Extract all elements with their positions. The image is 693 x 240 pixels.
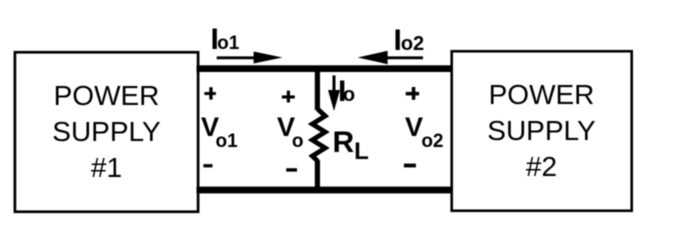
svg-text:RL: RL — [333, 126, 369, 165]
svg-text:Io1: Io1 — [211, 23, 240, 56]
current arrow Io1 — [217, 52, 283, 64]
svg-text:SUPPLY: SUPPLY — [487, 115, 596, 146]
wire resistor top lead — [315, 67, 320, 110]
label Io — [338, 75, 355, 108]
current arrow Io2 — [358, 51, 423, 64]
label Vo1 — [201, 112, 238, 152]
polarity plus node V2 — [406, 87, 419, 100]
wire bottom bus — [197, 187, 451, 194]
power supply PS2 box — [452, 51, 632, 211]
svg-text:POWER: POWER — [489, 79, 595, 110]
svg-text:Io: Io — [338, 75, 355, 108]
power supply PS1 box — [15, 52, 198, 212]
svg-text:#1: #1 — [91, 152, 122, 183]
polarity minus node V2 — [404, 164, 416, 168]
svg-text:Vo2: Vo2 — [405, 112, 444, 152]
label Vo2 — [405, 112, 444, 152]
svg-text:SUPPLY: SUPPLY — [52, 116, 161, 147]
svg-text:Vo1: Vo1 — [201, 112, 238, 152]
resistor RL — [312, 109, 325, 161]
polarity plus node Vo — [282, 91, 295, 103]
svg-text:#2: #2 — [526, 151, 557, 182]
polarity plus node V1 — [204, 87, 215, 99]
svg-text:Io2: Io2 — [394, 24, 425, 57]
wire resistor bottom lead — [315, 160, 320, 192]
label RL — [333, 126, 369, 165]
svg-text:Vo: Vo — [277, 112, 304, 152]
svg-text:POWER: POWER — [54, 80, 160, 111]
current arrow Io — [328, 75, 340, 111]
polarity minus node V1 — [203, 164, 212, 167]
polarity minus node Vo — [286, 168, 297, 171]
label Io2 — [394, 24, 425, 57]
label Io1 — [211, 23, 240, 56]
wire top bus — [197, 65, 453, 72]
label Vo — [277, 112, 304, 152]
